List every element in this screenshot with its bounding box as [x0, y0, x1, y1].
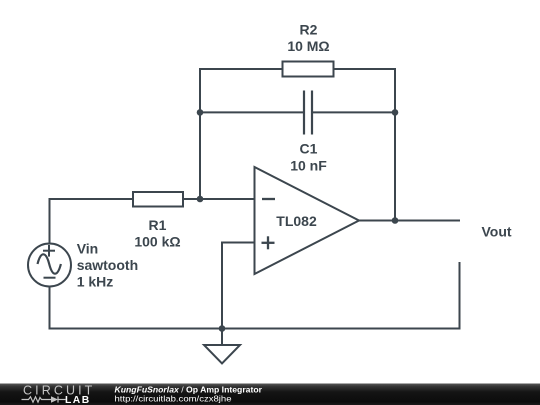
- svg-text:R2: R2: [300, 22, 318, 38]
- svg-text:http://circuitlab.com/czx8jhe: http://circuitlab.com/czx8jhe: [115, 393, 232, 403]
- svg-text:sawtooth: sawtooth: [77, 257, 138, 273]
- svg-text:1 kHz: 1 kHz: [77, 273, 114, 289]
- svg-text:100 kΩ: 100 kΩ: [134, 234, 180, 250]
- svg-text:TL082: TL082: [276, 213, 317, 229]
- svg-text:Vout: Vout: [482, 223, 512, 239]
- svg-text:LAB: LAB: [65, 395, 91, 405]
- svg-text:C1: C1: [300, 141, 318, 157]
- svg-text:10 MΩ: 10 MΩ: [287, 38, 329, 54]
- svg-text:R1: R1: [149, 217, 167, 233]
- svg-text:10 nF: 10 nF: [290, 158, 327, 174]
- svg-text:Vin: Vin: [77, 240, 99, 256]
